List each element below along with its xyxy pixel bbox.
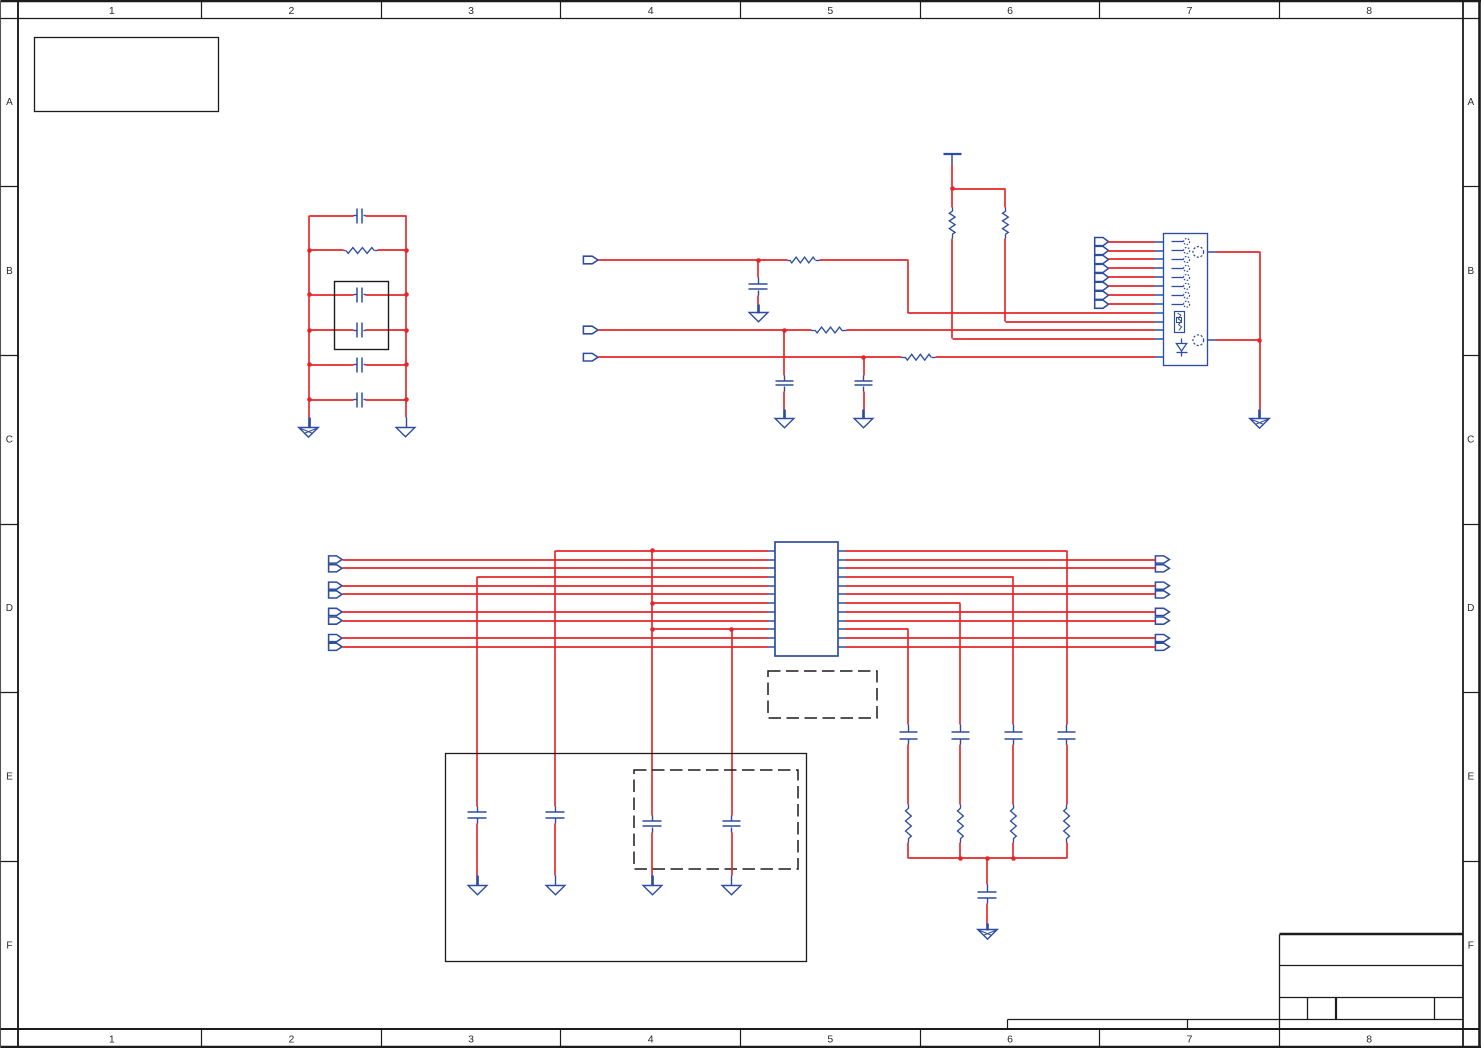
wire <box>599 356 864 358</box>
connector J4 pin 6 <box>1155 283 1190 289</box>
ic U1 right pin 18 <box>838 593 846 595</box>
column label 5 top <box>827 5 833 17</box>
connector J4 pin 7 <box>1155 292 1190 298</box>
svg-text:2: 2 <box>288 1033 294 1045</box>
connector J4 pin 12 <box>1155 338 1164 340</box>
wire <box>343 585 768 587</box>
junction <box>404 328 409 333</box>
svg-text:F: F <box>1468 940 1474 951</box>
svg-text:4: 4 <box>648 1033 654 1045</box>
diode D1 <box>1176 339 1187 357</box>
capacitor C8 <box>855 358 873 410</box>
wire <box>951 165 953 189</box>
svg-text:B: B <box>1467 266 1474 277</box>
ic U1 right pin 22 <box>838 628 846 630</box>
port L5 <box>329 608 342 615</box>
wire <box>343 611 768 613</box>
capacitor C14 <box>952 725 970 805</box>
wire <box>820 260 1155 314</box>
junction <box>729 627 734 632</box>
component outline box <box>335 282 389 350</box>
ic U1 right pin 16 <box>838 576 846 578</box>
ic U1 left pin 7 <box>768 602 776 604</box>
ic U1 right pin 13 <box>838 550 846 552</box>
ic U1 left pin 3 <box>768 567 776 569</box>
ic U1 right pin 20 <box>838 611 846 613</box>
wire <box>1109 285 1155 287</box>
port J1 <box>583 256 598 264</box>
svg-text:6: 6 <box>1007 5 1013 17</box>
port P5 <box>1095 273 1109 281</box>
svg-text:E: E <box>1467 772 1474 783</box>
svg-text:1: 1 <box>109 5 115 17</box>
junction <box>404 397 409 402</box>
wire <box>953 188 1006 190</box>
wire <box>1208 252 1261 410</box>
svg-text:1: 1 <box>109 1033 115 1045</box>
column label 2 bottom <box>288 1033 294 1045</box>
junction <box>1257 338 1262 343</box>
wire <box>952 239 1155 340</box>
row label E left <box>6 772 13 783</box>
capacitor C16 <box>1058 725 1076 805</box>
svg-text:3: 3 <box>468 1033 474 1045</box>
ic U1 right pin 19 <box>838 602 846 604</box>
connector J4 mounting hole top <box>1193 247 1204 258</box>
port R7 <box>1155 635 1169 642</box>
port J3 <box>583 353 598 361</box>
ic U1 left pin 6 <box>768 593 776 595</box>
svg-text:B: B <box>6 266 13 277</box>
capacitor C3 <box>310 323 407 338</box>
svg-text:A: A <box>1467 97 1474 108</box>
connector J4 pin 9 <box>1155 312 1164 314</box>
wire <box>1109 250 1155 252</box>
resistor R7 <box>906 805 912 859</box>
svg-text:8: 8 <box>1366 1033 1372 1045</box>
ground <box>854 410 873 428</box>
junction <box>1011 856 1016 861</box>
svg-text:A: A <box>6 97 13 108</box>
junction <box>650 548 655 553</box>
capacitor C12 <box>723 816 741 876</box>
capacitor C10 <box>546 807 565 876</box>
svg-text:C: C <box>1467 434 1474 445</box>
wire <box>343 646 768 648</box>
capacitor C6 <box>749 261 768 305</box>
column label 4 bottom <box>648 1033 654 1045</box>
wire <box>846 620 1156 622</box>
wire <box>1109 294 1155 296</box>
capacitor C17 <box>978 859 997 924</box>
junction <box>650 601 655 606</box>
wire <box>846 551 1068 725</box>
port R5 <box>1155 608 1169 615</box>
junction <box>404 292 409 297</box>
ic U1 left pin 4 <box>768 576 776 578</box>
port L3 <box>329 582 342 589</box>
wire <box>846 611 1156 613</box>
ic U1 left pin 11 <box>768 637 776 639</box>
ic U1 left pin 1 <box>768 550 776 552</box>
svg-text:5: 5 <box>827 1033 833 1045</box>
port P6 <box>1095 282 1109 290</box>
svg-text:D: D <box>6 603 13 614</box>
svg-text:2: 2 <box>288 5 294 17</box>
ground <box>978 924 998 940</box>
wire <box>731 630 733 816</box>
connector J4 pin 8 <box>1155 301 1190 307</box>
svg-text:7: 7 <box>1187 1033 1193 1045</box>
column label 3 bottom <box>468 1033 474 1045</box>
port R3 <box>1155 582 1169 589</box>
junction <box>861 355 866 360</box>
row label F right <box>1468 940 1474 951</box>
wire <box>846 567 1156 569</box>
ic U1 right pin 15 <box>838 567 846 569</box>
connector J4 pin 5 <box>1155 274 1190 280</box>
power symbol VCC <box>944 154 962 165</box>
svg-text:3: 3 <box>468 5 474 17</box>
resistor R5 <box>949 189 955 239</box>
capacitor C5 <box>310 393 407 408</box>
ground <box>643 876 662 895</box>
wire <box>846 559 1156 561</box>
capacitor C15 <box>1005 725 1023 805</box>
ground <box>299 418 319 438</box>
junction <box>307 248 312 253</box>
column label 6 bottom <box>1007 1033 1013 1045</box>
ic U1 left pin 8 <box>768 611 776 613</box>
connector J4 pin 3 <box>1155 257 1190 263</box>
wire <box>652 551 768 816</box>
junction <box>404 362 409 367</box>
junction <box>950 186 955 191</box>
capacitor C1 <box>310 209 407 224</box>
wire <box>1109 267 1155 269</box>
row label B left <box>6 266 13 277</box>
port L2 <box>329 565 342 572</box>
dashed annotation box <box>768 671 877 718</box>
ic U1 left pin 12 <box>768 646 776 648</box>
capacitor C9 <box>468 807 487 876</box>
column label 5 bottom <box>827 1033 833 1045</box>
ground <box>546 876 565 895</box>
svg-text:F: F <box>6 940 12 951</box>
port L4 <box>329 591 342 598</box>
enclosure box <box>446 754 807 962</box>
port P1 <box>1095 238 1109 246</box>
port L1 <box>329 556 342 563</box>
wire <box>599 259 759 261</box>
ic U1 right pin 17 <box>838 585 846 587</box>
wire <box>343 637 768 639</box>
capacitor C11 <box>643 816 662 876</box>
wire <box>343 593 768 595</box>
svg-text:4: 4 <box>648 5 654 17</box>
port R8 <box>1155 643 1169 650</box>
connector J4 pin 1 <box>1155 239 1190 245</box>
junction <box>756 258 761 263</box>
port P8 <box>1095 300 1109 308</box>
column label 6 top <box>1007 5 1013 17</box>
wire <box>846 646 1156 648</box>
wire <box>846 637 1156 639</box>
wire <box>343 620 768 622</box>
connector J4 pin 4 <box>1155 265 1190 271</box>
wire <box>343 559 768 561</box>
wire <box>555 551 768 807</box>
resistor R3 <box>785 327 847 333</box>
ic U1 left pin 9 <box>768 620 776 622</box>
connector J4 pin 2 <box>1155 248 1190 254</box>
wire <box>599 329 785 331</box>
port R4 <box>1155 591 1169 598</box>
wire <box>846 593 1156 595</box>
wire <box>846 629 909 725</box>
resistor R6 <box>1003 189 1009 239</box>
connector J4 label box <box>1175 312 1185 333</box>
column label 1 top <box>109 5 115 17</box>
junction <box>958 856 963 861</box>
row label A right <box>1467 97 1474 108</box>
wire <box>1109 241 1155 243</box>
wire <box>477 577 768 807</box>
wire <box>1109 258 1155 260</box>
capacitor C13 <box>900 725 918 805</box>
port L6 <box>329 617 342 624</box>
connector J4 pin 11 <box>1155 329 1164 331</box>
junction <box>307 328 312 333</box>
ground <box>396 418 415 437</box>
wire <box>846 577 1014 725</box>
column label 4 top <box>648 5 654 17</box>
svg-text:6: 6 <box>1007 1033 1013 1045</box>
row label B right <box>1467 266 1474 277</box>
svg-text:D: D <box>1467 603 1474 614</box>
port P3 <box>1095 255 1109 263</box>
wire <box>653 602 768 604</box>
ic U1 right pin 14 <box>838 559 846 561</box>
ic U1 left pin 10 <box>768 628 776 630</box>
top-left reference box <box>35 38 219 112</box>
column label 7 top <box>1187 5 1193 17</box>
capacitor C2 <box>310 288 407 303</box>
port J2 <box>583 326 598 334</box>
wire <box>847 329 1155 331</box>
row label E right <box>1467 772 1474 783</box>
row label F left <box>6 940 12 951</box>
svg-text:E: E <box>6 772 13 783</box>
capacitor C4 <box>310 358 407 373</box>
svg-text:C: C <box>6 434 13 445</box>
connector J4 pin 10 <box>1155 321 1164 323</box>
capacitor C7 <box>776 331 794 410</box>
resistor R10 <box>1064 805 1070 859</box>
port R1 <box>1155 556 1169 563</box>
column label 7 bottom <box>1187 1033 1193 1045</box>
row label D right <box>1467 603 1474 614</box>
port P4 <box>1095 264 1109 272</box>
row label C right <box>1467 434 1474 445</box>
revision strip <box>1008 1020 1280 1030</box>
ic U1 left pin 2 <box>768 559 776 561</box>
column label 1 bottom <box>109 1033 115 1045</box>
dashed group box <box>634 770 798 869</box>
port P2 <box>1095 246 1109 254</box>
svg-text:7: 7 <box>1187 5 1193 17</box>
row label A left <box>6 97 13 108</box>
wire <box>1208 339 1260 341</box>
junction <box>307 362 312 367</box>
port L8 <box>329 643 342 650</box>
junction <box>307 292 312 297</box>
wire <box>909 857 1067 859</box>
connector J4 pin 13 <box>1155 356 1164 358</box>
ground <box>775 410 794 428</box>
junction <box>650 627 655 632</box>
port P7 <box>1095 291 1109 299</box>
connector J4 body <box>1164 234 1208 366</box>
wire <box>936 356 1155 358</box>
resistor R4 <box>864 354 936 360</box>
ground <box>749 305 768 322</box>
ic U1 left pin 5 <box>768 585 776 587</box>
connector J4 mounting hole bottom <box>1193 335 1204 346</box>
junction <box>307 397 312 402</box>
svg-text:8: 8 <box>1366 5 1372 17</box>
column label 8 top <box>1366 5 1372 17</box>
wire <box>343 567 768 569</box>
wire <box>405 216 407 418</box>
title block <box>1280 934 1464 1030</box>
column label 8 bottom <box>1366 1033 1372 1045</box>
ic U1 right pin 24 <box>838 646 846 648</box>
wire <box>1005 239 1155 323</box>
ic U1 right pin 21 <box>838 620 846 622</box>
resistor R8 <box>958 805 964 859</box>
svg-text:5: 5 <box>827 5 833 17</box>
wire <box>846 603 961 725</box>
resistor R9 <box>1011 805 1017 859</box>
ic U1 right pin 23 <box>838 637 846 639</box>
junction <box>782 328 787 333</box>
wire <box>1109 276 1155 278</box>
wire <box>1109 303 1155 305</box>
ground <box>468 876 487 895</box>
port L7 <box>329 635 342 642</box>
column label 3 top <box>468 5 474 17</box>
resistor R2 <box>759 257 820 263</box>
row label D left <box>6 603 13 614</box>
ground <box>722 876 741 895</box>
column label 2 top <box>288 5 294 17</box>
junction <box>985 856 990 861</box>
port R6 <box>1155 617 1169 624</box>
junction <box>404 248 409 253</box>
ground <box>1250 410 1270 429</box>
resistor R1 <box>310 248 407 254</box>
ic U1 <box>775 542 838 656</box>
wire <box>846 585 1156 587</box>
wire <box>308 216 310 418</box>
row label C left <box>6 434 13 445</box>
port R2 <box>1155 565 1169 572</box>
